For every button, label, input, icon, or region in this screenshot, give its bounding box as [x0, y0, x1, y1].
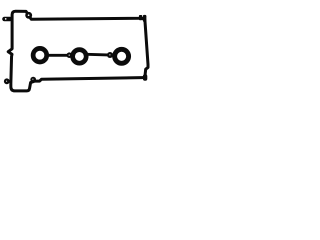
background: [0, 0, 154, 98]
seal ring R1: [33, 48, 47, 62]
link bar L1: [48, 54, 68, 57]
bolt hole B3 bottom step: [30, 77, 36, 83]
knob K1: [67, 52, 73, 58]
bottom-right corner foot: [143, 74, 147, 81]
seal ring R3: [115, 49, 129, 63]
bolt hole B1 top-left: [25, 12, 32, 19]
bolt hole B2 bottom-left: [4, 78, 12, 84]
link bar L2: [87, 53, 108, 57]
seal ring R2: [73, 50, 87, 64]
gasket outline: [8, 11, 148, 91]
top-right corner bump: [139, 15, 147, 22]
left tab lobe: [2, 17, 12, 22]
knob K2: [107, 52, 113, 58]
